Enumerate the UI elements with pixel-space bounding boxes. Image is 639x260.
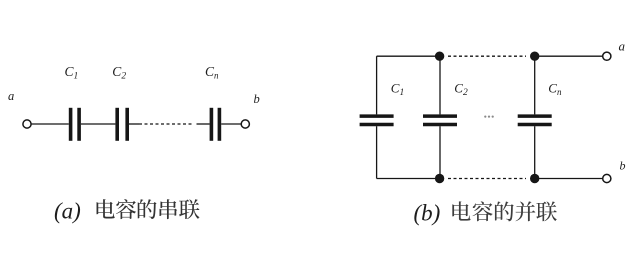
terminal a (right circuit) — [603, 52, 611, 60]
top rail dashed wire between node C2 and node Cn — [448, 55, 526, 57]
branch wire top of C2 — [439, 56, 441, 114]
branch wire bottom of C2 — [439, 126, 441, 178]
branch wire bottom of C1 — [376, 126, 378, 178]
svg-text:a: a — [619, 39, 626, 54]
svg-text:Cn: Cn — [548, 81, 562, 98]
bottom rail wire: node Cn to terminal b — [535, 178, 603, 180]
terminal b (right circuit) — [603, 174, 611, 182]
wire a to C1 — [31, 123, 69, 125]
capacitor C2 — [117, 108, 127, 141]
bottom rail dashed wire between node C2 and node Cn — [448, 178, 526, 180]
junction dot bottom Cn — [530, 174, 539, 183]
branch wire top of Cn — [534, 56, 536, 114]
svg-text:b: b — [254, 92, 260, 106]
ellipsis dots between C2 and Cn branches — [484, 116, 494, 118]
wire C1 to C2 — [81, 123, 116, 125]
svg-text:(a): (a) — [54, 199, 81, 224]
capacitor C1 — [71, 108, 80, 141]
svg-text:C2: C2 — [454, 81, 468, 99]
top rail wire: left corner to node C2 — [377, 55, 440, 57]
capacitor Cn (right circuit) — [518, 116, 552, 124]
terminal a — [23, 120, 31, 128]
caption (b) chinese text: 电容的并联 — [452, 201, 470, 220]
caption (a) chinese text: 电容的串联 — [97, 199, 115, 218]
branch wire bottom of Cn — [534, 126, 536, 178]
top rail wire: node Cn to terminal a — [535, 55, 603, 57]
svg-text:Cn: Cn — [205, 64, 219, 81]
junction dot top Cn — [530, 52, 539, 61]
branch wire top of C1 — [376, 56, 378, 114]
dashed wire (omitted capacitors) — [139, 123, 194, 125]
capacitor C1 (right circuit) — [360, 116, 394, 124]
bottom rail wire: left corner to node C2 — [377, 178, 440, 180]
svg-text:b: b — [620, 159, 626, 173]
wire dashed section to Cn — [197, 123, 210, 125]
wire Cn to b — [221, 123, 241, 125]
wire C2 to dashed section — [129, 123, 139, 125]
terminal b — [241, 120, 249, 128]
junction dot bottom C2 — [435, 174, 444, 183]
svg-text:C1: C1 — [391, 81, 404, 99]
capacitor C2 (right circuit) — [423, 116, 457, 124]
junction dot top C2 — [435, 52, 444, 61]
svg-text:C1: C1 — [65, 64, 79, 82]
svg-text:(b): (b) — [414, 200, 441, 225]
capacitor Cn — [211, 108, 219, 141]
svg-text:a: a — [8, 89, 14, 103]
svg-text:C2: C2 — [112, 64, 126, 82]
